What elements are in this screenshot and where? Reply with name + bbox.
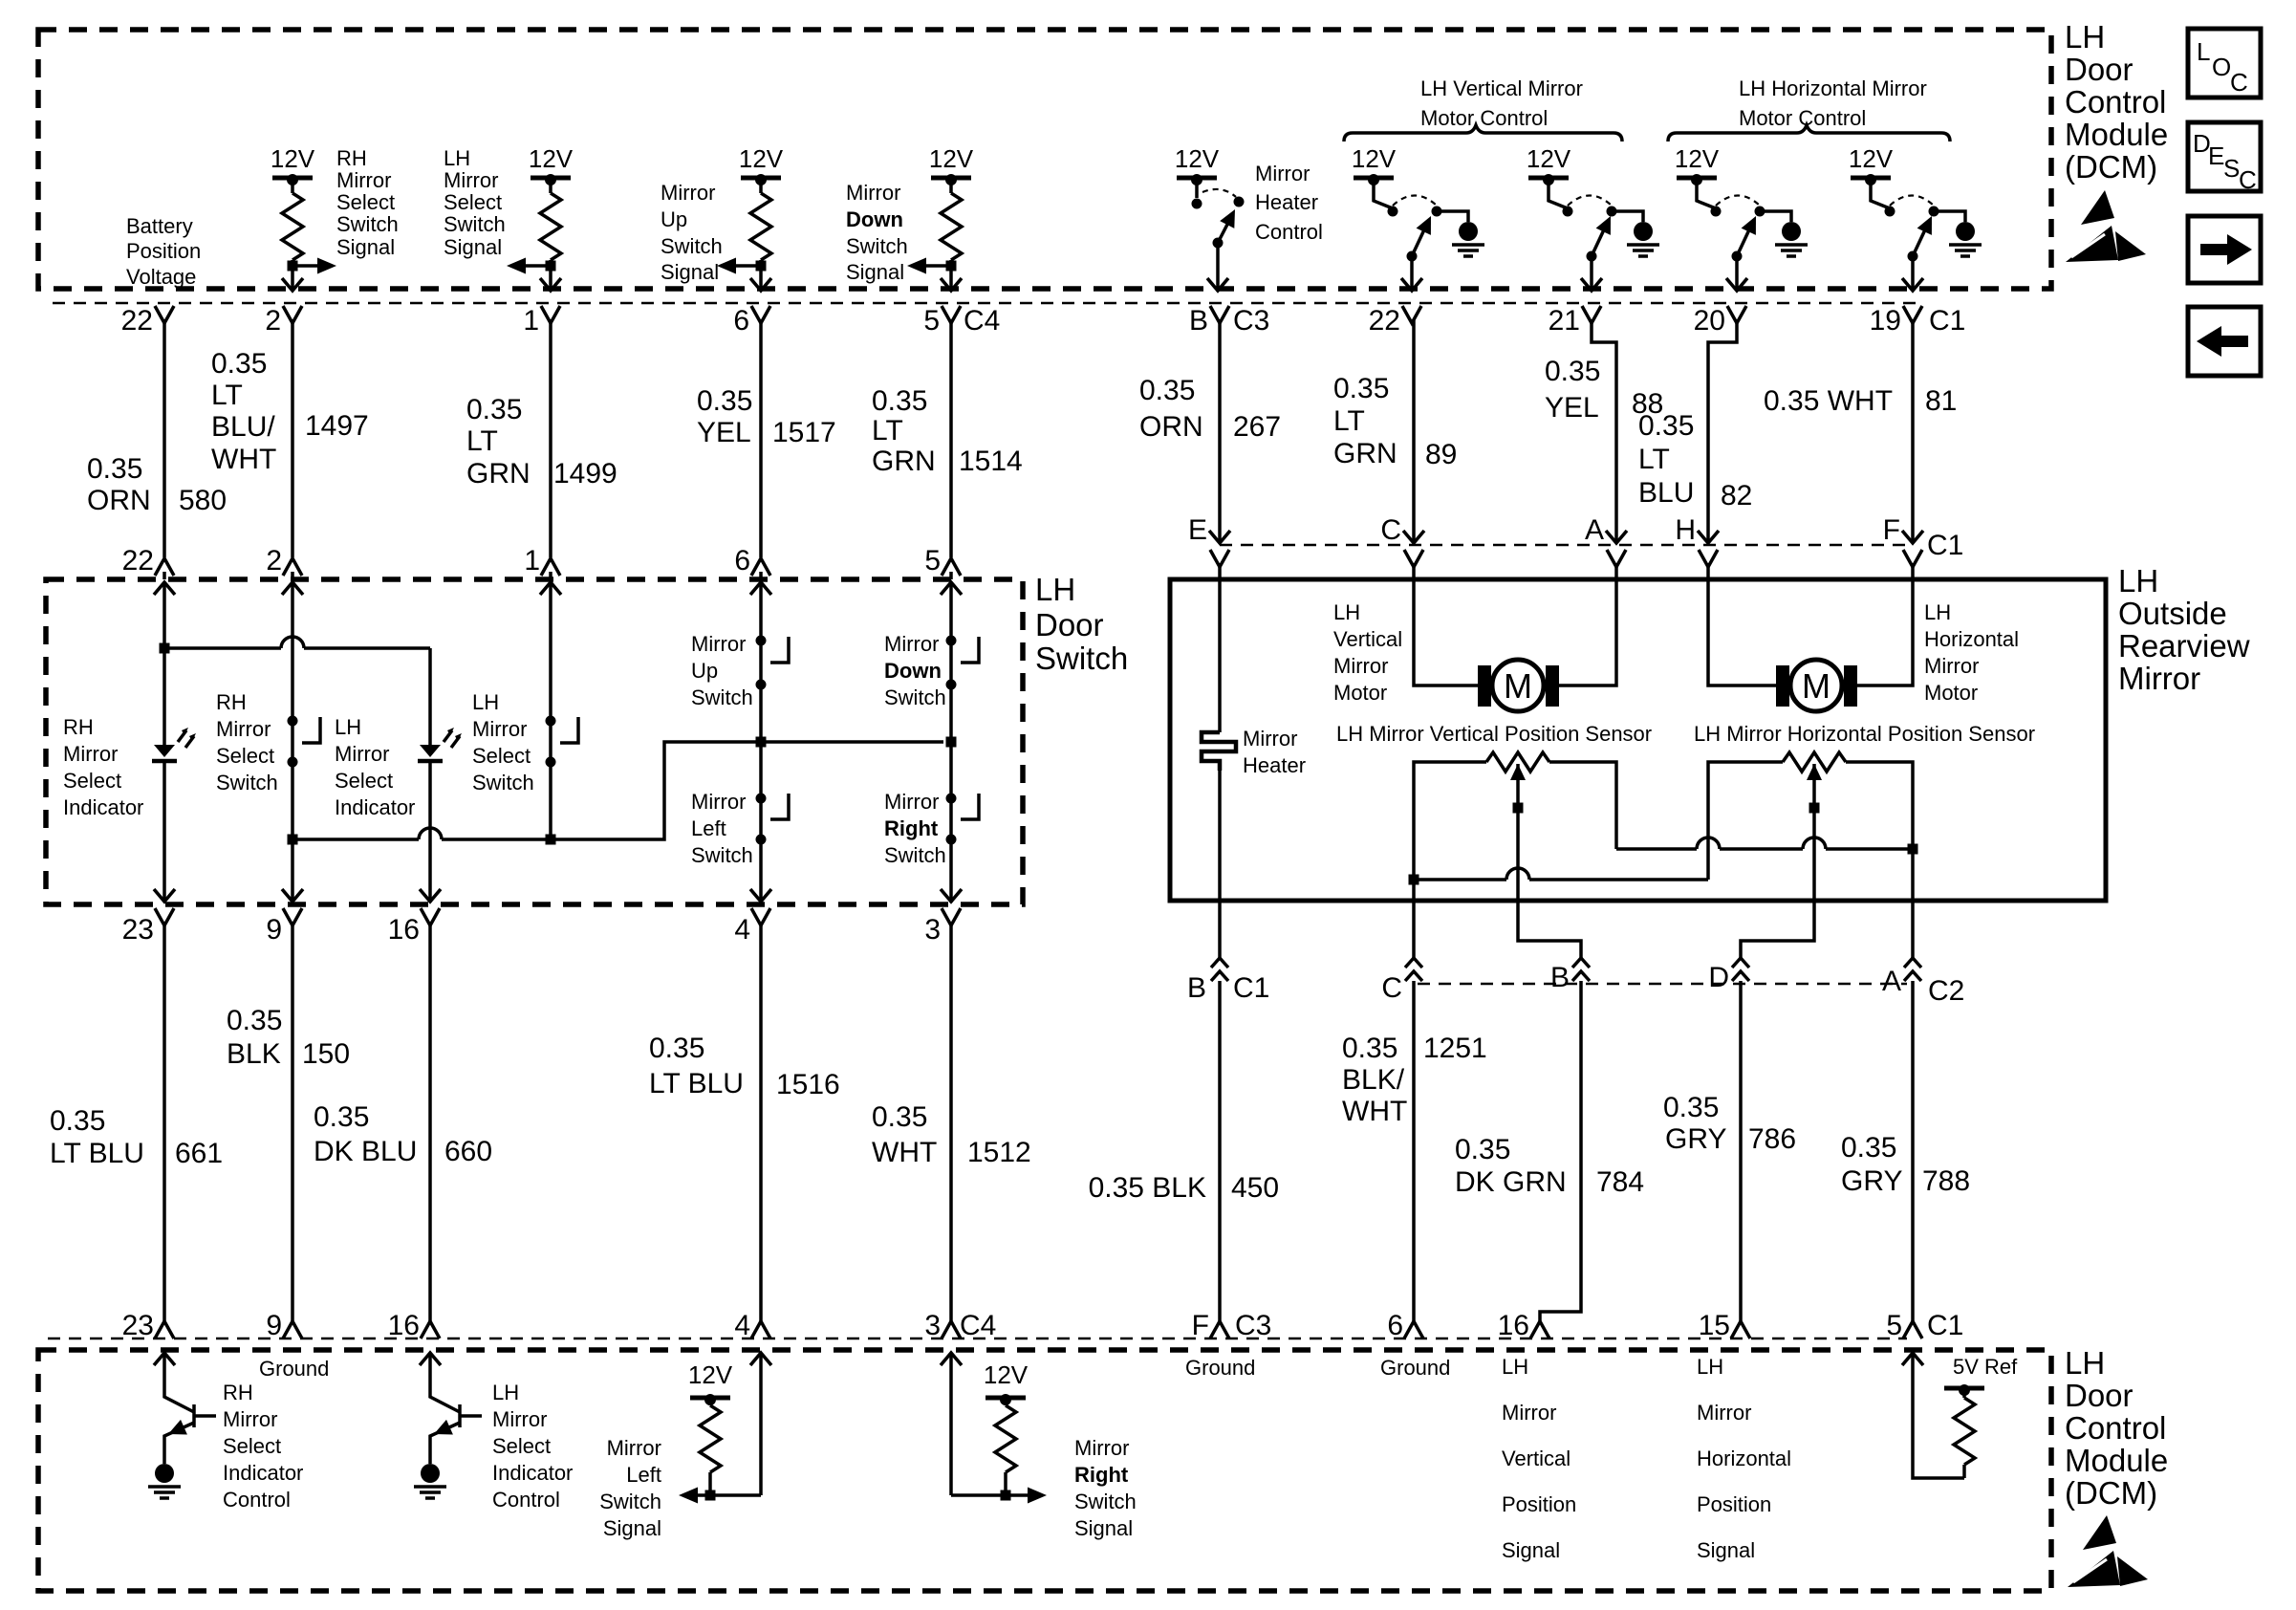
connector line: mirror connector C2: [1418, 983, 1907, 985]
svg-text:A: A: [1882, 966, 1901, 997]
pin 16 fork at bottom connector: [421, 1321, 440, 1338]
svg-text:12V: 12V: [271, 144, 315, 173]
svg-text:82: 82: [1721, 480, 1752, 511]
svg-text:Mirror: Mirror: [2118, 661, 2200, 696]
svg-text:22: 22: [1369, 305, 1400, 337]
svg-text:(DCM): (DCM): [2065, 1475, 2157, 1511]
svg-text:12V: 12V: [688, 1360, 733, 1389]
pin 6 fork at bottom connector: [1404, 1321, 1423, 1338]
switch: Mirror Down Switch contacts: [946, 636, 957, 646]
svg-text:267: 267: [1233, 411, 1281, 443]
svg-text:Indicator: Indicator: [223, 1461, 303, 1485]
svg-text:Outside: Outside: [2118, 596, 2227, 631]
svg-text:Signal: Signal: [1697, 1538, 1755, 1562]
pin C at mirror connector C1: [1403, 531, 1424, 543]
svg-text:GRN: GRN: [872, 446, 936, 477]
icon box right arrow: [2188, 216, 2261, 283]
svg-text:5: 5: [924, 545, 941, 577]
svg-text:B: B: [1550, 962, 1570, 993]
wire: vertical motor return to pin A: [1559, 563, 1616, 685]
svg-text:Switch: Switch: [846, 234, 908, 258]
svg-text:C1: C1: [1927, 1310, 1963, 1341]
svg-text:O: O: [2212, 53, 2231, 81]
svg-text:LH: LH: [1502, 1355, 1528, 1379]
svg-text:B: B: [1189, 305, 1208, 337]
pin 5 fork at top connector: [942, 306, 961, 323]
svg-text:12V: 12V: [984, 1360, 1029, 1389]
wiper: horizontal sensor wiper to pin D: [1807, 764, 1822, 780]
svg-text:LH: LH: [1333, 600, 1360, 624]
wire: 0.35 LT BLU 661 (pin 23): [162, 922, 166, 1323]
svg-text:0.35 WHT: 0.35 WHT: [1764, 385, 1893, 417]
wire: crossover from pin22 wire to LH select indicator: [164, 646, 281, 650]
wire entry arrow into door switch: [750, 582, 771, 595]
wire: LH horizontal mirror motor control B output to pin: [1908, 251, 1918, 262]
pin 20 fork at top connector: [1727, 306, 1746, 323]
ground: LH vertical mirror motor control A ground: [1452, 222, 1484, 256]
svg-text:LH: LH: [472, 690, 499, 714]
svg-text:0.35: 0.35: [1342, 1033, 1397, 1064]
wire: 0.35 GRY 786 (horizontal position signal): [1739, 981, 1743, 1323]
svg-text:Voltage: Voltage: [126, 265, 196, 289]
svg-text:Switch: Switch: [444, 212, 506, 236]
svg-text:LH Mirror Horizontal Position: LH Mirror Horizontal Position Sensor: [1694, 722, 2035, 746]
ground: LH horizontal mirror motor control B ground: [1949, 222, 1982, 256]
svg-text:0.35: 0.35: [211, 348, 267, 380]
svg-text:0.35: 0.35: [872, 385, 927, 417]
pin 5 fork at bottom connector: [1903, 1321, 1922, 1338]
pin E at mirror connector C1: [1209, 531, 1230, 543]
wire: horizontal motor feed from pin H: [1708, 563, 1776, 685]
svg-text:1251: 1251: [1423, 1033, 1487, 1064]
svg-text:1: 1: [523, 305, 539, 337]
svg-text:Signal: Signal: [603, 1516, 661, 1540]
svg-text:Signal: Signal: [846, 260, 904, 284]
svg-text:C4: C4: [960, 1310, 996, 1341]
svg-text:23: 23: [122, 1310, 154, 1341]
pin A at mirror connector C2: [1904, 958, 1921, 981]
svg-text:BLK: BLK: [227, 1038, 281, 1070]
svg-text:5: 5: [1886, 1310, 1902, 1341]
wire exit arrow from door switch: [750, 889, 771, 902]
ground: LH vertical mirror motor control B ground: [1627, 222, 1659, 256]
svg-text:12V: 12V: [1849, 144, 1894, 173]
svg-text:Mirror: Mirror: [884, 790, 939, 814]
svg-text:12V: 12V: [929, 144, 974, 173]
svg-text:Position: Position: [126, 239, 201, 263]
svg-text:12V: 12V: [739, 144, 784, 173]
motor: LH Vertical Mirror Motor: [1478, 665, 1491, 707]
pin 23 fork at bottom connector: [155, 1321, 174, 1338]
svg-text:GRY: GRY: [1665, 1123, 1726, 1155]
node: junction at mirror up switch common: [756, 737, 767, 748]
svg-text:E: E: [2208, 141, 2224, 170]
heater: Mirror Heater element: [1202, 732, 1236, 771]
svg-text:Heater: Heater: [1255, 190, 1318, 214]
wire: ground branch to horizontal sensor low end: [1414, 878, 1506, 881]
svg-text:F: F: [1883, 514, 1900, 546]
svg-text:LT BLU: LT BLU: [649, 1068, 744, 1099]
svg-text:Module: Module: [2065, 1443, 2168, 1478]
pin 19 fork at top connector: [1903, 306, 1922, 323]
wire: 0.35 BLK 450 (heater ground): [1218, 981, 1222, 1323]
svg-text:GRN: GRN: [466, 458, 531, 490]
svg-text:12V: 12V: [1527, 144, 1571, 173]
svg-text:YEL: YEL: [1545, 392, 1599, 424]
LED: LH Mirror Select Indicator: [418, 728, 462, 761]
svg-text:Indicator: Indicator: [63, 795, 143, 819]
wire: 0.35 YEL 88 (pin 21 to mirror connector A): [1592, 319, 1616, 541]
wire exit arrow from door switch: [941, 889, 962, 902]
node: ground branch junction: [1409, 875, 1419, 885]
svg-text:Select: Select: [472, 744, 531, 768]
svg-text:Signal: Signal: [1502, 1538, 1560, 1562]
svg-text:6: 6: [734, 545, 750, 577]
wire exit arrow from door switch: [282, 889, 303, 902]
transistor: RH Mirror Select Indicator Control driver: [154, 1353, 175, 1365]
svg-text:1517: 1517: [772, 417, 836, 448]
svg-text:Control: Control: [223, 1488, 291, 1512]
svg-text:E: E: [1188, 514, 1207, 546]
svg-text:Ground: Ground: [259, 1357, 329, 1381]
svg-text:Mirror: Mirror: [1255, 162, 1310, 185]
svg-text:B: B: [1187, 972, 1206, 1004]
svg-text:Up: Up: [661, 207, 687, 231]
wire: 5V node down to pin A: [1911, 849, 1915, 958]
pin 9 fork at bottom connector: [283, 1321, 302, 1338]
pin 3 fork at bottom connector: [942, 1321, 961, 1338]
wire: LH horizontal mirror motor control A output to pin: [1732, 251, 1743, 262]
svg-text:0.35: 0.35: [697, 385, 752, 417]
wire: crossover line from RH select to up/down switch common: [292, 838, 419, 841]
node: junction LH select wire and crossover line: [546, 835, 556, 845]
ground: LH horizontal mirror motor control A ground: [1775, 222, 1808, 256]
svg-text:Select: Select: [223, 1434, 281, 1458]
svg-text:12V: 12V: [1175, 144, 1220, 173]
svg-text:LT: LT: [1638, 444, 1670, 475]
svg-text:RH: RH: [216, 690, 247, 714]
ground: RH indicator driver ground: [148, 1464, 181, 1498]
wire: vertical sensor high end to 5V line: [1549, 762, 1616, 849]
ground: LH indicator driver ground: [414, 1464, 446, 1498]
svg-text:Door: Door: [2065, 1378, 2134, 1413]
svg-text:20: 20: [1694, 305, 1725, 337]
svg-text:784: 784: [1596, 1166, 1644, 1198]
module box: LH Door Control Module (DCM), top: [38, 30, 2051, 289]
svg-text:0.35 BLK: 0.35 BLK: [1089, 1172, 1206, 1204]
svg-text:Mirror: Mirror: [691, 632, 746, 656]
svg-text:LH: LH: [1035, 572, 1075, 607]
svg-text:WHT: WHT: [211, 444, 276, 475]
svg-text:Left: Left: [691, 816, 726, 840]
svg-text:1: 1: [524, 545, 540, 577]
pin 2 fork at top connector: [283, 306, 302, 323]
pin 16 fork below door switch: [421, 908, 440, 925]
wire: mirror heater to ground pin B C1: [1218, 771, 1222, 958]
pin F fork at bottom connector: [1210, 1321, 1229, 1338]
svg-text:Battery: Battery: [126, 214, 193, 238]
svg-text:4: 4: [734, 1310, 750, 1341]
switch: RH Mirror Select Switch contacts: [288, 716, 298, 727]
wire: 0.35 LT BLU 1516 (pin 4): [759, 922, 763, 1323]
svg-text:1499: 1499: [553, 458, 617, 490]
svg-text:Mirror: Mirror: [661, 181, 715, 205]
wire entry arrow into door switch: [282, 582, 303, 595]
svg-text:5V Ref: 5V Ref: [1953, 1355, 2018, 1379]
svg-text:WHT: WHT: [872, 1137, 937, 1168]
svg-text:Door: Door: [1035, 607, 1104, 642]
svg-text:Select: Select: [216, 744, 274, 768]
brace: LH horizontal mirror motor control: [1668, 125, 1950, 141]
wire exit arrow from door switch: [154, 889, 175, 902]
wire: 0.35 BLK/WHT 1251 (sensor ground): [1412, 981, 1416, 1323]
svg-text:23: 23: [122, 914, 154, 946]
pin 1 fork at top connector: [541, 306, 560, 323]
svg-text:LT: LT: [1333, 405, 1365, 437]
module box: LH Outside Rearview Mirror: [1170, 579, 2106, 901]
svg-text:0.35: 0.35: [1663, 1092, 1719, 1123]
pin 21 fork at top connector: [1582, 306, 1601, 323]
LED: RH Mirror Select Indicator: [152, 728, 196, 761]
svg-text:0.35: 0.35: [50, 1105, 105, 1137]
svg-text:660: 660: [444, 1136, 492, 1167]
motor: LH Horizontal Mirror Motor: [1776, 665, 1789, 707]
svg-text:0.35: 0.35: [1455, 1134, 1510, 1165]
svg-text:Motor Control: Motor Control: [1739, 106, 1866, 130]
node: 5V reference junction: [1908, 844, 1918, 855]
svg-text:BLU: BLU: [1638, 477, 1694, 509]
svg-text:Rearview: Rearview: [2118, 628, 2250, 664]
wiper: vertical sensor wiper to pin B: [1510, 764, 1526, 780]
ESD sensitivity icon bottom: [2068, 1515, 2148, 1587]
pin 9 fork below door switch: [283, 908, 302, 925]
svg-text:C1: C1: [1233, 972, 1269, 1004]
svg-text:L: L: [2197, 37, 2210, 66]
pin 22 fork at top connector: [155, 306, 174, 323]
node: junction pin22 wire to LH indicator feed: [160, 643, 170, 654]
svg-text:89: 89: [1425, 439, 1457, 470]
svg-text:C: C: [2239, 165, 2257, 194]
svg-text:A: A: [1585, 514, 1604, 546]
pin B fork at top connector: [1210, 306, 1229, 323]
svg-text:D: D: [1708, 962, 1729, 993]
svg-text:Mirror: Mirror: [884, 632, 939, 656]
svg-text:Mirror: Mirror: [1074, 1436, 1129, 1460]
wire: vertical sensor low end to ground line: [1414, 762, 1486, 958]
node: junction at mirror down switch common: [946, 737, 957, 748]
svg-text:LT: LT: [466, 425, 498, 457]
wire: horizontal sensor high end to 5V node: [1846, 762, 1913, 849]
svg-text:0.35: 0.35: [1545, 356, 1600, 387]
svg-text:Switch: Switch: [1035, 641, 1128, 676]
ESD sensitivity icon top: [2066, 190, 2146, 262]
potentiometer: LH Mirror Horizontal Position Sensor: [1783, 752, 1846, 772]
svg-text:F: F: [1192, 1310, 1209, 1341]
svg-text:LH: LH: [1924, 600, 1951, 624]
svg-text:Mirror: Mirror: [335, 742, 389, 766]
svg-text:C: C: [2230, 68, 2248, 97]
svg-text:Position: Position: [1502, 1492, 1576, 1516]
svg-text:Select: Select: [444, 190, 502, 214]
node: wiper junction vertical: [1513, 803, 1524, 814]
svg-text:Mirror: Mirror: [1502, 1401, 1556, 1425]
svg-text:450: 450: [1231, 1172, 1279, 1204]
svg-text:ORN: ORN: [1139, 411, 1203, 443]
svg-text:Right: Right: [884, 816, 939, 840]
svg-text:16: 16: [1498, 1310, 1529, 1341]
svg-text:Control: Control: [1255, 220, 1323, 244]
svg-text:Mirror: Mirror: [691, 790, 746, 814]
svg-text:Mirror: Mirror: [223, 1407, 277, 1431]
wire: LH mirror select indicator branch down to pin 16: [428, 648, 432, 745]
svg-text:Motor: Motor: [1924, 681, 1978, 705]
pin H at mirror connector C1: [1698, 531, 1719, 543]
svg-text:BLK/: BLK/: [1342, 1064, 1405, 1096]
switch: Mirror Up Switch contacts: [756, 636, 767, 646]
wire: pin 6 through mirror up and left switches to pin 4: [759, 582, 763, 903]
svg-text:0.35: 0.35: [1841, 1132, 1896, 1164]
svg-text:LH: LH: [2118, 563, 2158, 598]
node: junction RH select wire and crossover line: [288, 835, 298, 845]
svg-text:Control: Control: [2065, 1410, 2166, 1446]
svg-text:Indicator: Indicator: [335, 795, 415, 819]
svg-text:Heater: Heater: [1243, 753, 1306, 777]
svg-text:786: 786: [1748, 1123, 1796, 1155]
pin 23 fork below door switch: [155, 908, 174, 925]
svg-text:Mirror: Mirror: [492, 1407, 547, 1431]
wire: horizontal sensor low end: [1708, 762, 1783, 880]
pin 6 fork above door switch: [751, 558, 770, 576]
wire entry arrow into door switch: [941, 582, 962, 595]
svg-text:Select: Select: [336, 190, 395, 214]
svg-text:LH Mirror Vertical Position Se: LH Mirror Vertical Position Sensor: [1336, 722, 1652, 746]
svg-text:Mirror: Mirror: [216, 717, 271, 741]
svg-text:RH: RH: [336, 146, 367, 170]
svg-text:Select: Select: [63, 769, 121, 793]
node: wiper junction horizontal: [1809, 803, 1820, 814]
svg-text:M: M: [1504, 666, 1532, 706]
wire: pin 3 mirror right switch signal into module: [941, 1353, 962, 1365]
svg-text:21: 21: [1549, 305, 1580, 337]
svg-text:Switch: Switch: [691, 685, 753, 709]
pin A at mirror connector C1: [1606, 531, 1627, 543]
wire: 0.35 LT GRN 89 (pin 22 to mirror connector C): [1412, 319, 1416, 541]
svg-text:12V: 12V: [1675, 144, 1720, 173]
module box: LH Door Switch: [46, 579, 1023, 904]
wire: 0.35 BLK 150 (pin 9 ground): [291, 922, 294, 1323]
svg-text:1512: 1512: [967, 1137, 1031, 1168]
svg-text:0.35: 0.35: [314, 1101, 369, 1133]
svg-text:9: 9: [266, 914, 282, 946]
svg-text:Down: Down: [884, 659, 942, 683]
svg-text:H: H: [1675, 514, 1696, 546]
svg-text:1516: 1516: [776, 1069, 840, 1100]
svg-text:Right: Right: [1074, 1463, 1129, 1487]
wire: 0.35 LT BLU 82 (pin 20 to mirror connector H): [1708, 319, 1737, 541]
svg-text:Mirror: Mirror: [472, 717, 527, 741]
svg-text:Switch: Switch: [472, 771, 534, 794]
potentiometer: LH Mirror Vertical Position Sensor: [1486, 752, 1549, 772]
svg-text:LH: LH: [335, 715, 361, 739]
svg-text:Select: Select: [335, 769, 393, 793]
svg-text:580: 580: [179, 485, 227, 516]
svg-text:Motor Control: Motor Control: [1420, 106, 1548, 130]
svg-text:2: 2: [265, 305, 281, 337]
wire: RH mirror select indicator branch (pin 22 to 23): [162, 582, 166, 745]
svg-text:Switch: Switch: [884, 685, 946, 709]
svg-text:RH: RH: [223, 1381, 253, 1404]
svg-text:0.35: 0.35: [872, 1101, 927, 1133]
pin 1 fork above door switch: [541, 558, 560, 576]
wire: pin 5 5V reference into module: [1902, 1353, 1923, 1365]
wire: pin 5 through mirror down and right switches to pin 3: [949, 582, 953, 903]
svg-text:LT BLU: LT BLU: [50, 1138, 144, 1169]
svg-text:16: 16: [388, 1310, 420, 1341]
transistor: LH Mirror Select Indicator Control driver: [420, 1353, 441, 1365]
wire: vertical motor feed from pin C: [1414, 563, 1478, 685]
wire: 0.35 DK BLU 660 (pin 16): [428, 922, 432, 1323]
svg-text:Mirror: Mirror: [846, 181, 900, 205]
svg-text:81: 81: [1925, 385, 1957, 417]
wire: pin 1 to LH mirror select switch: [549, 582, 552, 839]
svg-text:Switch: Switch: [691, 843, 753, 867]
connector line: mirror connector C1 upper: [1220, 544, 1907, 546]
svg-text:0.35: 0.35: [466, 394, 522, 425]
svg-text:12V: 12V: [1352, 144, 1397, 173]
svg-text:C1: C1: [1929, 305, 1965, 337]
svg-text:LH: LH: [444, 146, 470, 170]
svg-text:1514: 1514: [959, 446, 1023, 477]
svg-text:Mirror: Mirror: [1333, 654, 1388, 678]
wire: horizontal motor return from pin F: [1857, 563, 1913, 685]
svg-text:0.35: 0.35: [227, 1005, 282, 1036]
svg-text:Switch: Switch: [661, 234, 723, 258]
svg-text:C: C: [1380, 514, 1401, 546]
wire: 0.35 WHT 81 (pin 19 to mirror connector F): [1911, 319, 1915, 541]
wire: 0.35 LT BLU/WHT 1497 (pin 2 to door switch): [291, 319, 294, 557]
svg-text:S: S: [2223, 154, 2240, 183]
svg-text:0.35: 0.35: [1333, 373, 1389, 404]
svg-text:LH: LH: [492, 1381, 519, 1404]
icon box LOC: [2188, 29, 2261, 98]
svg-text:Signal: Signal: [444, 235, 502, 259]
svg-text:Mirror: Mirror: [1924, 654, 1979, 678]
svg-text:Mirror: Mirror: [607, 1436, 661, 1460]
svg-text:Ground: Ground: [1380, 1356, 1450, 1380]
svg-text:Switch: Switch: [884, 843, 946, 867]
wire: 0.35 ORN 267 (pin B to mirror connector E): [1218, 319, 1222, 541]
svg-text:Left: Left: [626, 1463, 661, 1487]
connector line: top module connectors C4 C3 C1: [53, 302, 1917, 304]
svg-text:0.35: 0.35: [1139, 375, 1195, 406]
pin D at mirror connector C2: [1732, 958, 1749, 981]
svg-text:5: 5: [923, 305, 940, 337]
svg-text:4: 4: [734, 914, 750, 946]
svg-text:Vertical: Vertical: [1502, 1447, 1570, 1470]
svg-text:C2: C2: [1928, 975, 1964, 1007]
svg-text:Motor: Motor: [1333, 681, 1387, 705]
wire: LH vertical mirror motor control A output to pin: [1407, 251, 1418, 262]
svg-text:ORN: ORN: [87, 485, 151, 516]
svg-text:LH Horizontal Mirror: LH Horizontal Mirror: [1739, 76, 1927, 100]
svg-text:C1: C1: [1927, 530, 1963, 561]
svg-text:788: 788: [1922, 1165, 1970, 1197]
svg-text:Ground: Ground: [1185, 1356, 1255, 1380]
brace: LH vertical mirror motor control: [1344, 125, 1622, 141]
wire: mirror heater feed from pin E: [1218, 563, 1222, 732]
svg-text:Switch: Switch: [216, 771, 278, 794]
wire: pin 2 through RH mirror select switch to pin 9: [291, 582, 294, 903]
